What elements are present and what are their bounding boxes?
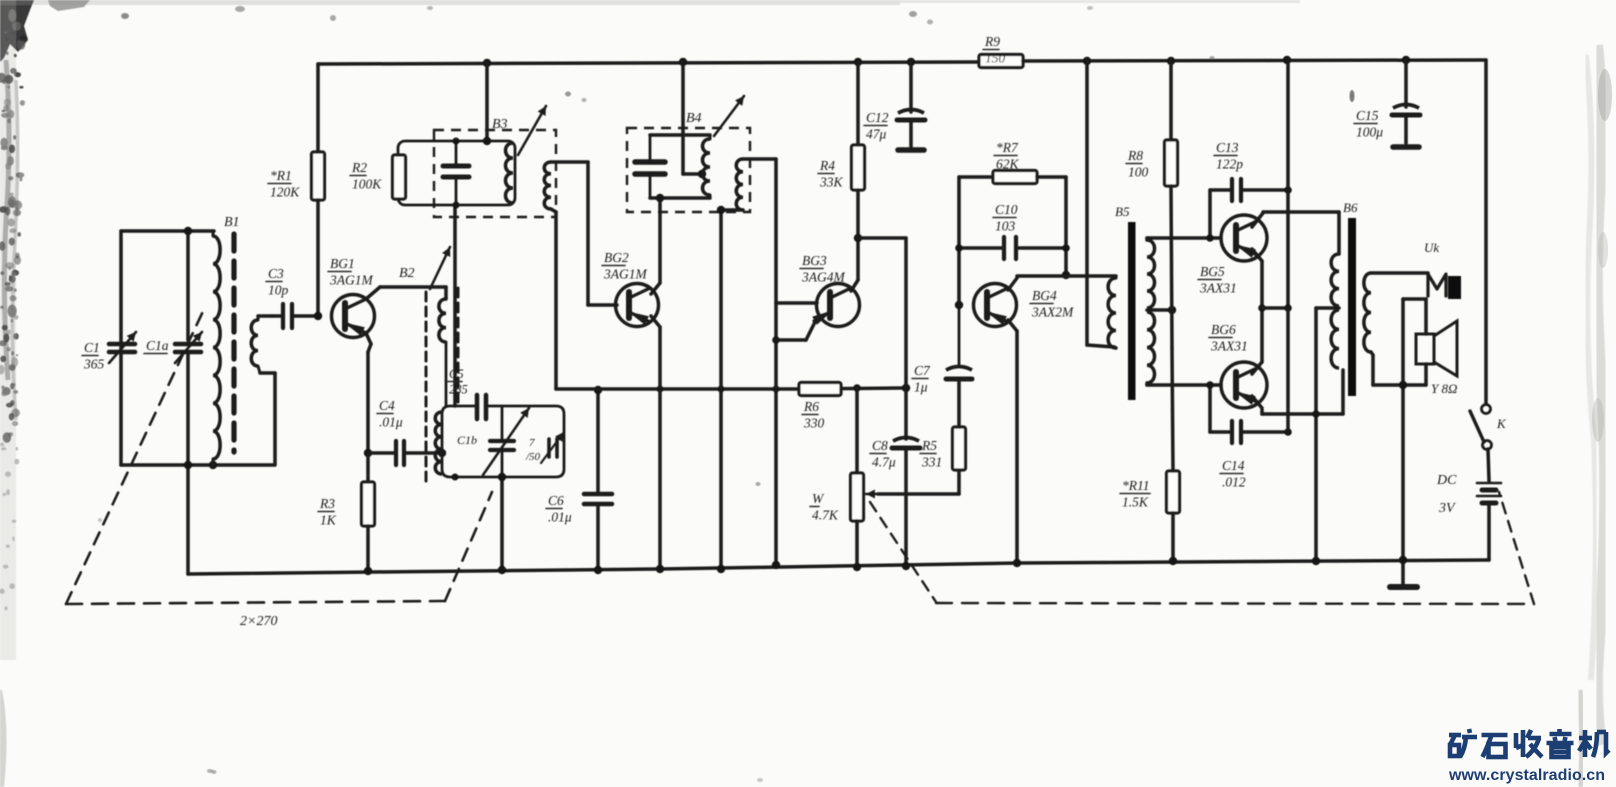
resistor R9	[979, 34, 1023, 68]
arrow C1a tuning	[175, 332, 202, 363]
label K	[1496, 416, 1507, 431]
resistor R2	[350, 155, 406, 199]
node BG4 base	[955, 301, 963, 309]
node BG1 base	[314, 312, 322, 320]
node B4 bottom	[656, 194, 664, 202]
wire B4 secondary bottom	[721, 210, 743, 569]
node speaker ground	[1399, 381, 1407, 389]
svg-text:.012: .012	[1222, 475, 1246, 490]
wire antenna drop to bus	[186, 465, 190, 574]
label Y	[1431, 381, 1457, 396]
svg-text:R6: R6	[803, 399, 819, 414]
node rail junction	[1167, 57, 1175, 65]
node R6 junctions	[853, 384, 910, 392]
label BG4	[1030, 288, 1074, 320]
transistor BG1	[332, 295, 375, 338]
svg-text:122p: 122p	[1216, 157, 1243, 172]
inductor B4 primary	[703, 135, 711, 198]
node rail junction	[907, 58, 915, 66]
wire B4 secondary top	[743, 159, 776, 303]
inductor B4 secondary	[736, 159, 743, 210]
arrow C1b tuning	[483, 408, 529, 475]
node B4 sec bottom	[717, 206, 725, 573]
wire BG6 collector	[1252, 370, 1343, 414]
wire B1 secondary to C3	[258, 314, 272, 318]
resistor R11	[1120, 471, 1180, 561]
svg-text:3V: 3V	[1438, 501, 1456, 516]
node C6 junctions	[594, 386, 602, 574]
capacitor B3 tank cap	[443, 141, 469, 205]
node rail junction	[679, 58, 687, 66]
capacitor C5 padder	[447, 367, 486, 419]
node W bus	[853, 563, 861, 571]
svg-text:B3: B3	[492, 117, 508, 132]
svg-text:R2: R2	[351, 160, 367, 175]
svg-text:62K: 62K	[996, 157, 1020, 172]
svg-text:C5: C5	[449, 367, 464, 381]
switch K	[1470, 405, 1492, 450]
node emitters	[1258, 304, 1266, 312]
wire BG5 collector	[1252, 212, 1339, 254]
svg-text:C8: C8	[872, 438, 888, 453]
arrow B4 slug	[714, 96, 744, 136]
node rail junction	[1083, 57, 1091, 65]
wire rail to B3	[485, 63, 489, 141]
variable capacitor C1b	[490, 406, 514, 477]
dashed gang line left diagonal	[66, 307, 205, 604]
dashed gang volume to switch horizontal	[936, 603, 1534, 604]
svg-text:10p: 10p	[268, 283, 289, 298]
wire B4 tank bottom	[650, 196, 710, 200]
svg-text:*R7: *R7	[996, 140, 1019, 155]
wire rail to driver	[1087, 61, 1114, 347]
wire detector to volume	[799, 388, 906, 389]
svg-text:1K: 1K	[320, 513, 337, 528]
label BG3	[800, 253, 845, 285]
inductor B6 primary lower	[1331, 310, 1339, 368]
wire speaker bottom	[1424, 364, 1428, 385]
dashed box B3	[434, 130, 556, 217]
wire B5 primary bottom	[1114, 347, 1116, 348]
svg-text:R3: R3	[319, 496, 335, 511]
wire B4 line to bus	[774, 303, 778, 565]
capacitor B4 tank cap	[635, 135, 665, 198]
label B1	[224, 215, 240, 230]
inductor B6 primary upper	[1331, 254, 1339, 306]
label BG1	[328, 256, 373, 288]
core B1 ferrite rod	[231, 234, 236, 452]
node C10 junctions	[955, 244, 1070, 279]
inductor B3 secondary	[544, 162, 551, 209]
transistor BG6	[1221, 362, 1267, 408]
resistor R1	[268, 64, 325, 316]
svg-text:C1b: C1b	[457, 433, 477, 447]
svg-text:BG5: BG5	[1200, 264, 1225, 279]
wire B5 sec tap	[1147, 308, 1172, 312]
node antenna junctions	[184, 227, 217, 469]
label B2	[399, 266, 415, 281]
watermark crystalradio logo	[1449, 729, 1609, 757]
node BG2 emitter bus	[656, 565, 664, 573]
svg-text:C14: C14	[1222, 458, 1245, 473]
svg-text:2×270: 2×270	[240, 614, 277, 629]
svg-text:BG2: BG2	[604, 250, 629, 265]
capacitor C4	[368, 441, 442, 465]
node C14 junctions	[1206, 381, 1292, 436]
speaker Y box	[1416, 334, 1434, 364]
svg-text:C1a: C1a	[146, 338, 169, 353]
node B6 tap junctions	[1312, 410, 1320, 565]
wire BG1 collector	[366, 287, 446, 299]
arrow C1 tuning	[109, 332, 136, 363]
label C1	[82, 340, 105, 372]
svg-text:R4: R4	[819, 158, 835, 173]
wire B3 secondary bottom	[551, 209, 556, 389]
svg-text:B4: B4	[686, 111, 702, 126]
svg-text:100: 100	[1128, 165, 1149, 180]
svg-text:BG1: BG1	[330, 256, 355, 271]
node rail junction	[1283, 56, 1291, 64]
node C4 tank junction	[438, 449, 446, 457]
label R5	[920, 438, 942, 470]
label C1b	[457, 433, 477, 447]
svg-text:BG6: BG6	[1211, 322, 1236, 337]
wire jack lower contact	[1403, 299, 1426, 584]
node tank bottom	[452, 473, 507, 574]
svg-text:3AG1M: 3AG1M	[603, 267, 647, 282]
inductor B5 secondary upper	[1147, 240, 1155, 308]
inductor B5 primary	[1108, 276, 1116, 348]
svg-text:150: 150	[985, 51, 1006, 66]
label B5	[1115, 204, 1130, 219]
inductor B2 tank winding	[435, 412, 442, 474]
label B3	[492, 117, 508, 132]
dashed gang switch riser	[1499, 492, 1534, 604]
dashed box B4	[627, 128, 750, 212]
svg-text:4.7μ: 4.7μ	[872, 455, 896, 470]
svg-text:C10: C10	[995, 202, 1018, 217]
arrow W wiper	[866, 489, 880, 498]
ground chassis bar	[1390, 584, 1417, 590]
potentiometer W	[810, 388, 864, 567]
core B2 dashed	[425, 292, 428, 486]
wire B6 sec bottom	[1371, 352, 1426, 385]
node detector line junctions	[657, 386, 780, 393]
svg-text:B5: B5	[1115, 204, 1130, 219]
wire antenna tank bottom	[121, 463, 274, 467]
svg-text:C4: C4	[379, 398, 395, 413]
wire R7 right leg	[1037, 177, 1066, 275]
svg-text:3AG1M: 3AG1M	[329, 273, 373, 288]
resistor R7	[993, 140, 1037, 184]
jack Uk sleeve contact	[1448, 276, 1461, 299]
core B5	[1128, 222, 1136, 400]
wire antenna tank top	[121, 229, 214, 233]
label BG6	[1209, 322, 1248, 354]
wire B6 center tap	[1316, 308, 1339, 561]
svg-text:www.crystalradio.cn: www.crystalradio.cn	[1448, 767, 1605, 784]
inductor B2 feedback winding	[439, 299, 446, 406]
capacitor C7	[912, 305, 972, 427]
svg-text:3AX31: 3AX31	[1210, 339, 1248, 354]
capacitor C10	[959, 202, 1066, 259]
svg-text:W: W	[812, 491, 825, 506]
resistor R6	[799, 383, 841, 431]
wire R7 left leg	[959, 177, 993, 305]
svg-text:3AX2M: 3AX2M	[1031, 305, 1074, 320]
inductor B6 secondary	[1364, 273, 1371, 352]
trimmer capacitor 7/50	[525, 432, 564, 463]
transistor BG4	[974, 284, 1017, 327]
wire BG2 emitter	[651, 316, 660, 569]
wire wiper to C7	[878, 492, 959, 496]
wire BG6 emitter	[1252, 308, 1262, 374]
label C6	[546, 493, 572, 525]
svg-text:BG3: BG3	[802, 253, 827, 268]
svg-text:C3: C3	[268, 266, 284, 281]
wire B5 sec top	[1147, 238, 1221, 240]
svg-text:7: 7	[529, 437, 535, 449]
capacitor C12	[864, 62, 925, 150]
wire BG4 emitter	[1008, 320, 1017, 563]
tank box B3	[398, 141, 515, 205]
resistor R4	[818, 62, 865, 238]
dashed gang volume to switch diag	[870, 502, 936, 602]
capacitor C13	[1210, 140, 1288, 238]
label B4	[686, 111, 702, 126]
svg-text:331: 331	[921, 455, 942, 470]
wire tank to bus	[500, 477, 504, 570]
wire BG5 emitter	[1252, 249, 1262, 308]
svg-text:C6: C6	[548, 493, 564, 508]
speaker Y cone	[1434, 321, 1457, 376]
capacitor C15	[1354, 60, 1420, 147]
wire BG1 emitter	[366, 333, 371, 453]
core B2 dashed right	[457, 288, 460, 402]
node BG3 collector	[854, 234, 862, 242]
label C3	[266, 266, 289, 298]
svg-text:100μ: 100μ	[1356, 125, 1383, 140]
node rail junction	[854, 58, 862, 66]
svg-text:C7: C7	[914, 363, 931, 378]
label BG5	[1198, 264, 1237, 296]
wire BG3 emitter line	[776, 322, 815, 340]
wire BG4 collector	[1008, 276, 1116, 290]
svg-text:285: 285	[449, 383, 468, 397]
battery DC	[1477, 449, 1501, 560]
node BG3 wiring	[772, 336, 780, 569]
arrow B3 slug	[518, 106, 546, 155]
label C4	[377, 398, 403, 430]
svg-text:120K: 120K	[270, 185, 300, 200]
wire B6 sec top	[1371, 271, 1428, 275]
wire rail to B4	[683, 62, 702, 174]
node C13 junctions	[1206, 186, 1292, 242]
wire collector to C8	[858, 238, 906, 388]
capacitor C8	[870, 388, 920, 566]
svg-text:Y 8Ω: Y 8Ω	[1431, 381, 1457, 396]
wire C1 left leg	[119, 231, 123, 465]
svg-text:1μ: 1μ	[914, 380, 928, 395]
scan smudge right edge	[1579, 45, 1612, 787]
resistor R8	[1126, 61, 1178, 186]
node emitter junction	[364, 449, 372, 457]
tank box oscillator	[442, 406, 564, 477]
wire C14 to emitter line	[1286, 308, 1290, 432]
label gang 2x270	[240, 614, 277, 629]
svg-text:C1: C1	[84, 340, 100, 355]
svg-text:DC: DC	[1436, 473, 1457, 488]
wire B3 tap to tank	[453, 205, 457, 406]
svg-text:33K: 33K	[819, 175, 844, 190]
resistor R5 body	[953, 427, 966, 494]
svg-text:.01μ: .01μ	[548, 510, 572, 525]
node R3 bus	[364, 567, 372, 575]
wire top supply rail right section	[1023, 60, 1486, 61]
svg-text:C15: C15	[1356, 108, 1379, 123]
label DC 3V	[1436, 473, 1457, 516]
svg-text:47μ: 47μ	[866, 127, 887, 142]
svg-text:R8: R8	[1127, 148, 1143, 163]
node C8 bus	[902, 562, 910, 570]
transistor BG3	[812, 284, 859, 327]
svg-text:365: 365	[83, 357, 105, 372]
svg-text:C13: C13	[1216, 140, 1239, 155]
label Uk	[1424, 240, 1439, 255]
svg-text:3AX31: 3AX31	[1199, 281, 1237, 296]
svg-text:*R1: *R1	[270, 168, 292, 183]
core B6	[1348, 218, 1356, 396]
svg-text:330: 330	[803, 416, 825, 431]
resistor R3	[318, 453, 375, 571]
capacitor C14	[1210, 385, 1288, 490]
svg-text:R9: R9	[984, 34, 1000, 49]
svg-text:K: K	[1496, 416, 1507, 431]
svg-text:4.7K: 4.7K	[812, 508, 839, 523]
svg-text:1.5K: 1.5K	[1122, 495, 1149, 510]
label BG2	[602, 250, 647, 282]
node R11 bus	[1169, 557, 1177, 565]
wire top supply rail left section	[318, 62, 979, 64]
wire BG3 base	[776, 301, 817, 305]
node BG4 emitter bus	[1013, 559, 1021, 567]
svg-text:B1: B1	[224, 215, 240, 230]
inductor B1 primary	[213, 231, 220, 465]
wire AGC detector line	[556, 387, 799, 391]
arrow B2 slug	[430, 247, 450, 289]
svg-text:Uk: Uk	[1424, 240, 1439, 255]
wire B5 sec bottom	[1147, 383, 1221, 385]
inductor B5 secondary lower	[1147, 312, 1155, 383]
transistor BG5	[1221, 215, 1267, 261]
wire B3 secondary top to BG2	[551, 162, 617, 305]
transistor BG2	[616, 284, 659, 327]
svg-text:.01μ: .01μ	[379, 415, 403, 430]
svg-text:B2: B2	[399, 266, 415, 281]
svg-text:103: 103	[995, 219, 1016, 234]
svg-text:C12: C12	[866, 110, 889, 125]
wire BG2 collector	[651, 199, 660, 294]
svg-text:100K: 100K	[352, 177, 382, 192]
wire R8 to R11	[1171, 186, 1173, 471]
wire right supply drop to switch	[1484, 60, 1488, 404]
svg-text:3AG4M: 3AG4M	[801, 270, 845, 285]
node B4 tap	[698, 170, 706, 178]
wire B4 tank top	[650, 133, 710, 137]
svg-text:BG4: BG4	[1032, 288, 1057, 303]
variable capacitor C1a	[175, 344, 201, 465]
wire jack to speaker	[1424, 299, 1428, 334]
node ground bus	[1399, 556, 1407, 564]
variable capacitor C1	[109, 231, 188, 352]
svg-text:B6: B6	[1343, 200, 1358, 215]
node rail junction	[483, 59, 491, 67]
label B6	[1343, 200, 1358, 215]
wire bottom bus	[188, 560, 1489, 574]
node emitter rail link	[1284, 304, 1292, 312]
capacitor C3	[272, 304, 318, 328]
wire BG3 collector	[851, 238, 858, 291]
dashed gang line bottom	[66, 601, 445, 604]
capacitor C6	[584, 390, 612, 570]
dashed gang line to oscillator	[445, 492, 492, 601]
svg-text:*R11: *R11	[1122, 478, 1150, 493]
svg-text:/50: /50	[525, 451, 541, 463]
svg-text:R5: R5	[921, 438, 937, 453]
node B5 tap	[1168, 306, 1176, 314]
node rail junction	[1402, 56, 1410, 64]
inductor B1 secondary	[251, 316, 275, 465]
node B3 top	[453, 137, 492, 209]
inductor B3 primary	[506, 143, 514, 203]
jack Uk spring contact	[1428, 274, 1446, 296]
label C1a	[144, 338, 169, 354]
wire emitters to rail	[1262, 60, 1288, 308]
